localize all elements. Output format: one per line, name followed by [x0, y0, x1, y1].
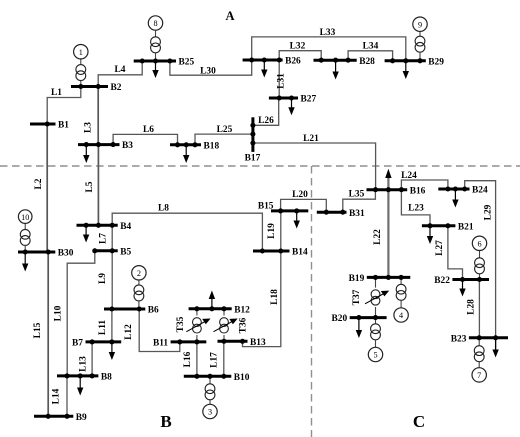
load arrow at B21 — [427, 226, 433, 244]
bus B26 — [243, 57, 301, 67]
generator G10 — [18, 210, 32, 224]
svg-text:B1: B1 — [58, 121, 69, 131]
line L28 — [467, 280, 480, 338]
svg-text:L29: L29 — [484, 204, 494, 220]
line L3 — [84, 87, 99, 145]
transformer of G10 — [20, 229, 30, 245]
load arrow at B24 — [452, 189, 458, 208]
line L9 — [98, 251, 112, 309]
bus B18 — [170, 141, 219, 151]
svg-text:B9: B9 — [76, 413, 87, 423]
generator G7 — [472, 368, 486, 382]
line L8 — [112, 204, 262, 252]
line L17 — [210, 341, 224, 376]
svg-text:8: 8 — [153, 19, 157, 28]
line L33 — [252, 28, 406, 61]
svg-text:L17: L17 — [210, 352, 220, 368]
line L31 — [277, 60, 287, 98]
svg-text:L30: L30 — [200, 67, 216, 77]
bus B2 — [71, 83, 122, 93]
svg-text:B23: B23 — [451, 334, 467, 344]
bus B23 — [451, 334, 508, 344]
load arrow at B25 — [152, 61, 158, 78]
wire — [209, 376, 211, 384]
generator G9 — [413, 17, 427, 31]
svg-text:7: 7 — [477, 371, 481, 380]
flow arrow head of L22 (up, above B16) — [385, 169, 391, 178]
wire — [223, 335, 225, 341]
svg-text:L24: L24 — [401, 171, 417, 181]
bus B22 — [434, 276, 489, 286]
line L21 — [253, 134, 376, 190]
svg-text:L16: L16 — [183, 351, 193, 367]
bus B28 — [314, 57, 376, 67]
transformer T37 (OLTC) — [352, 289, 389, 305]
load arrow at B3 — [83, 145, 89, 163]
transformer of G9 — [415, 36, 425, 52]
line L20 — [281, 190, 327, 212]
svg-text:B14: B14 — [292, 248, 308, 258]
bus B15 — [258, 201, 308, 213]
line L6 — [113, 125, 177, 145]
transformer of G5 — [371, 324, 381, 340]
svg-text:T36: T36 — [239, 317, 249, 333]
wire — [375, 318, 377, 324]
load arrow at B22 — [459, 280, 465, 297]
svg-text:L3: L3 — [84, 122, 94, 133]
transformer of G3 — [205, 384, 215, 400]
transformer of G7 — [474, 346, 484, 362]
svg-text:B26: B26 — [285, 57, 301, 67]
svg-text:B30: B30 — [58, 249, 74, 259]
bus B4 — [77, 222, 132, 232]
wire — [375, 277, 377, 287]
svg-text:B15: B15 — [258, 201, 274, 211]
line L13 — [78, 342, 92, 376]
bus B8 — [57, 373, 112, 383]
generator G6 — [472, 236, 486, 250]
svg-text:B27: B27 — [301, 95, 317, 105]
line L14 — [52, 376, 68, 416]
generator G3 — [203, 404, 217, 418]
line L29 — [465, 181, 496, 351]
svg-text:L33: L33 — [320, 28, 336, 38]
bus B1 — [30, 121, 69, 131]
line L35 — [343, 190, 376, 213]
wire — [138, 301, 140, 309]
svg-text:4: 4 — [399, 311, 403, 320]
bus B6 — [104, 306, 159, 316]
bus B9 — [34, 413, 87, 423]
svg-text:L1: L1 — [51, 88, 62, 98]
wire — [419, 52, 421, 61]
transformer of G6 — [475, 258, 485, 274]
svg-text:B2: B2 — [111, 83, 122, 93]
svg-text:B7: B7 — [72, 339, 83, 349]
wire — [24, 223, 26, 229]
load arrow at B4 — [83, 225, 89, 242]
svg-text:B10: B10 — [234, 373, 250, 383]
injection arrow above B12 — [209, 291, 215, 309]
line L4 — [98, 61, 142, 87]
bus B14 — [253, 248, 308, 258]
svg-text:B20: B20 — [332, 314, 348, 324]
svg-text:L28: L28 — [467, 299, 477, 315]
load arrow at B7 — [109, 342, 115, 360]
svg-text:B17: B17 — [245, 154, 261, 164]
line L32 — [279, 42, 321, 61]
load arrow at B15 — [294, 211, 300, 229]
line L1 — [47, 87, 81, 125]
svg-text:B22: B22 — [434, 276, 450, 286]
svg-text:B11: B11 — [153, 339, 168, 349]
transformer of G8 — [151, 37, 161, 53]
svg-text:B19: B19 — [349, 274, 365, 284]
wire — [223, 309, 225, 316]
svg-text:L35: L35 — [349, 190, 365, 200]
svg-text:L5: L5 — [85, 181, 95, 192]
bus B20 — [332, 314, 387, 324]
svg-text:L25: L25 — [217, 125, 233, 135]
wire — [375, 307, 377, 318]
svg-text:L23: L23 — [408, 204, 424, 214]
line L22 — [373, 176, 388, 278]
wire — [138, 280, 140, 285]
line L34 — [348, 42, 393, 61]
line L16 — [183, 342, 197, 376]
zone boundary (vertical dashed B/C) — [311, 166, 313, 437]
wire — [400, 277, 402, 284]
svg-text:L6: L6 — [143, 125, 154, 135]
svg-text:L21: L21 — [303, 134, 319, 144]
wire — [196, 335, 198, 342]
svg-text:B6: B6 — [148, 306, 159, 316]
svg-text:B16: B16 — [410, 186, 426, 196]
wire — [80, 81, 82, 87]
flow arrow of L29 below B23 — [492, 338, 498, 358]
line L7 — [98, 225, 112, 251]
svg-text:L11: L11 — [98, 320, 108, 335]
wire — [478, 362, 480, 368]
svg-text:B8: B8 — [101, 373, 112, 383]
svg-text:L8: L8 — [158, 204, 169, 214]
svg-text:L9: L9 — [98, 273, 108, 284]
wire — [400, 300, 402, 307]
bus B25 — [134, 58, 195, 68]
svg-text:B12: B12 — [234, 305, 250, 315]
bus B3 — [78, 141, 133, 151]
bus B31 — [317, 209, 365, 219]
bus B12 — [189, 305, 251, 315]
line L24 — [401, 171, 448, 190]
svg-text:B5: B5 — [120, 247, 131, 257]
svg-text:B24: B24 — [472, 186, 488, 196]
bus B30 — [18, 249, 74, 259]
svg-text:L12: L12 — [124, 324, 134, 340]
line L25 — [195, 125, 253, 145]
bus B27 — [269, 95, 317, 105]
line L30 — [170, 60, 252, 77]
svg-text:3: 3 — [208, 408, 212, 417]
svg-text:L2: L2 — [34, 178, 44, 189]
svg-text:B18: B18 — [204, 141, 220, 151]
bus B7 — [72, 339, 121, 349]
line L27 — [435, 226, 463, 280]
svg-text:L14: L14 — [52, 388, 62, 404]
wire — [196, 309, 198, 316]
load arrow at B8 — [77, 376, 83, 396]
svg-text:B: B — [160, 412, 171, 431]
zone boundary (horizontal dashed) — [0, 165, 520, 167]
bus B11 — [153, 339, 206, 349]
wire — [155, 53, 157, 61]
svg-text:B25: B25 — [179, 58, 195, 68]
line L15 — [33, 252, 48, 416]
load arrow at B18 — [183, 145, 189, 163]
svg-text:L32: L32 — [290, 42, 306, 52]
svg-text:A: A — [225, 9, 234, 23]
line L10 — [54, 251, 95, 376]
line L2 — [34, 124, 47, 252]
svg-text:C: C — [413, 412, 425, 431]
generator G1 — [74, 45, 88, 59]
transformer of G1 — [76, 65, 86, 81]
line L12 — [124, 309, 180, 352]
bus B16 — [367, 186, 426, 196]
wire — [479, 251, 481, 258]
wire — [155, 30, 157, 37]
svg-text:B21: B21 — [458, 222, 474, 232]
wire — [209, 400, 211, 405]
svg-text:6: 6 — [477, 240, 481, 249]
svg-text:L18: L18 — [270, 289, 280, 305]
generator G2 — [132, 266, 146, 280]
svg-text:5: 5 — [373, 351, 377, 360]
line L5 — [85, 145, 98, 226]
bus B5 — [92, 247, 131, 257]
bus B19 — [349, 274, 411, 284]
wire — [479, 274, 481, 280]
line L26 — [253, 98, 279, 126]
bus B21 — [422, 222, 474, 232]
svg-text:B4: B4 — [120, 222, 131, 232]
svg-text:L13: L13 — [78, 356, 88, 372]
svg-text:L4: L4 — [115, 65, 126, 75]
load arrow at B28 — [332, 60, 338, 79]
svg-text:B31: B31 — [349, 209, 365, 219]
svg-text:L7: L7 — [98, 233, 108, 244]
svg-text:L31: L31 — [277, 73, 287, 89]
line L11 — [98, 309, 112, 342]
transformer of G2 — [134, 285, 144, 301]
line L23 — [401, 190, 430, 226]
transformer of G4 — [396, 284, 406, 300]
svg-text:L22: L22 — [373, 229, 383, 245]
generator G8 — [148, 16, 162, 30]
svg-text:L19: L19 — [267, 223, 277, 239]
flow arrow of L33 below B29 — [403, 61, 409, 79]
svg-text:B13: B13 — [250, 338, 266, 348]
bus B24 — [438, 186, 488, 196]
svg-text:B29: B29 — [428, 57, 444, 67]
svg-text:L27: L27 — [435, 240, 445, 256]
line L18 — [243, 251, 281, 347]
bus B17 (vertical) — [245, 117, 261, 163]
bus B13 — [218, 338, 266, 348]
svg-text:L26: L26 — [258, 116, 274, 126]
svg-text:L20: L20 — [292, 190, 308, 200]
load arrow at B27 — [288, 98, 294, 115]
svg-text:10: 10 — [21, 213, 29, 222]
svg-text:2: 2 — [137, 269, 141, 278]
transformer T35 (OLTC) — [176, 316, 211, 333]
svg-text:L15: L15 — [33, 322, 43, 338]
wire — [419, 31, 421, 36]
line L19 — [267, 211, 281, 251]
generator G5 — [368, 347, 382, 361]
svg-text:T35: T35 — [176, 316, 186, 332]
load arrow at B20 — [356, 318, 362, 338]
svg-text:B3: B3 — [122, 141, 133, 151]
svg-text:1: 1 — [79, 48, 83, 57]
svg-text:L34: L34 — [363, 42, 379, 52]
transformer T36 (OLTC) — [214, 317, 249, 333]
svg-text:L10: L10 — [54, 305, 64, 321]
svg-text:T37: T37 — [352, 289, 362, 305]
generator G4 — [394, 308, 408, 322]
wire — [375, 340, 377, 347]
wire — [478, 338, 480, 346]
bus B10 — [184, 373, 250, 383]
load arrow at B30 — [22, 252, 28, 272]
svg-text:B28: B28 — [359, 57, 375, 67]
wire — [80, 59, 82, 65]
wire — [24, 245, 26, 252]
svg-text:9: 9 — [418, 20, 422, 29]
bus B29 — [385, 57, 445, 67]
load arrow at B26 — [261, 60, 267, 78]
